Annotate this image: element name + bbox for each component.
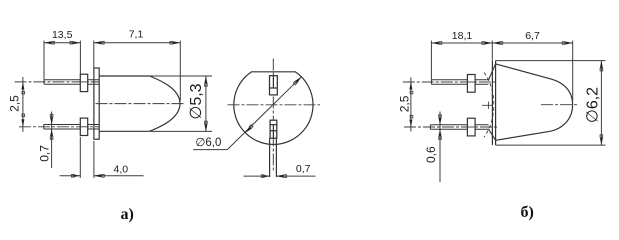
arrow 2,5b top: [409, 82, 412, 90]
svg-text:18,1: 18,1: [452, 30, 473, 42]
dimension 7,1 line: [94, 42, 181, 44]
LED b: internal dashed arc: [484, 73, 494, 138]
LED a: top lead: [44, 80, 99, 84]
LED a: top lead crimp tab: [80, 74, 87, 91]
svg-text:0,7: 0,7: [38, 145, 52, 162]
LED a: top lead centerline overlay: [79, 81, 89, 83]
dimension 18,1 line: [431, 42, 492, 44]
LED b: internal funnel top: [489, 64, 496, 80]
svg-text:6,7: 6,7: [525, 30, 540, 42]
svg-text:13,5: 13,5: [52, 29, 73, 41]
dimension 4,0 lines: [60, 175, 144, 177]
dimension 7,1 extension lines: [94, 41, 181, 101]
arrow 18,1 right: [485, 42, 492, 45]
LED front view: lead below: [270, 138, 277, 177]
arrow 0,7mid left: [263, 175, 270, 178]
svg-text:2,5: 2,5: [397, 95, 411, 112]
LED b: body axis centerline: [541, 104, 578, 106]
arrow 2,5a bottom: [21, 119, 24, 127]
arrow D6,0 upper: [295, 77, 301, 83]
arrow 2,5b bottom: [409, 120, 412, 128]
dimension D5,3 extension lines: [150, 76, 212, 131]
svg-text:∅6,2: ∅6,2: [584, 87, 601, 123]
LED b: top lead: [431, 80, 488, 85]
arrow D5,3 bottom: [204, 124, 207, 131]
arrow 0,7mid right: [276, 175, 283, 178]
LED b: body cone and dome bottom: [496, 105, 573, 141]
arrow 7,1 right: [173, 41, 180, 44]
arrow 0,7a up: [50, 129, 53, 136]
dimension D6,0 underline: [193, 149, 227, 151]
LED a: body with dome: [99, 76, 180, 131]
svg-text:б): б): [521, 204, 534, 221]
dimension 13,5 extension lines: [44, 41, 80, 80]
dimension D6,0 diagonal: [227, 77, 301, 150]
arrow 18,1 left: [432, 42, 439, 45]
arrow 13,5 right: [73, 41, 80, 44]
arrow D6,0 lower: [245, 127, 251, 133]
LED b: top lead centerline overlay: [466, 81, 477, 83]
dimension 0,7 lines (front view): [244, 175, 316, 177]
arrow D6,2 top: [600, 61, 603, 68]
arrow 0,6 down: [439, 118, 442, 125]
arrows group: [21, 41, 603, 177]
LED b: bottom lead crimp tab: [467, 118, 475, 136]
LED b: bottom lead: [430, 125, 488, 130]
dimension 6,7 right extension: [572, 41, 574, 101]
arrow D6,2 bottom: [600, 138, 603, 145]
LED b: top lead centerline: [403, 81, 497, 83]
LED a: top lead centerline: [15, 81, 100, 83]
LED a: bottom lead: [44, 125, 100, 130]
arrow 13,5 left: [44, 41, 51, 44]
LED b: base rim: [492, 61, 495, 146]
arrow 4,0 right: [94, 174, 101, 177]
dimension 2,5 line (b): [410, 78, 412, 132]
dimension 6,7 line: [492, 42, 572, 44]
LED b: body cone and dome top: [496, 64, 573, 105]
dimension 13,5 line: [44, 42, 80, 44]
svg-text:2,5: 2,5: [7, 95, 21, 112]
svg-text:∅6,0: ∅6,0: [195, 137, 221, 149]
LED front view: horizontal centerline: [228, 104, 321, 106]
svg-text:а): а): [121, 206, 134, 223]
LED b: polarity plus mark: [482, 102, 492, 109]
LED b: bottom lead centerline: [404, 126, 497, 128]
arrow 0,6 up: [439, 129, 442, 136]
arrow 6,7 right: [566, 42, 573, 45]
dimension 0,6 line (b): [439, 112, 441, 183]
LED a: bottom lead crimp tab: [80, 118, 87, 135]
LED front view: top electrode: [270, 76, 278, 95]
dimension 0,7 line (a): [51, 112, 53, 169]
LED a: bottom lead centerline: [19, 126, 100, 128]
LED b: bottom lead centerline overlay: [466, 126, 477, 128]
dimension texts: [7, 28, 601, 175]
LED b: internal funnel bottom: [489, 129, 496, 140]
dimension D6,2 extension lines: [496, 61, 606, 146]
LED a: flange: [94, 68, 99, 139]
dimension 18,1 / 6,7 shared extension: [491, 41, 493, 61]
LED front view: bottom electrode: [270, 120, 277, 138]
arrow 2,5a top: [21, 82, 24, 90]
LED b: top lead crimp tab: [467, 75, 475, 93]
dimension D6,2 line: [600, 61, 602, 146]
LED front view: vertical centerline: [272, 59, 274, 173]
arrow 7,1 left: [94, 41, 101, 44]
arrow 0,7a down: [50, 118, 53, 125]
svg-text:4,0: 4,0: [113, 163, 128, 175]
arrow D5,3 top: [204, 76, 207, 83]
svg-text:7,1: 7,1: [129, 28, 144, 40]
LED front view: circle with flat top: [234, 72, 313, 145]
arrow 6,7 left: [493, 42, 500, 45]
svg-text:∅5,3: ∅5,3: [188, 83, 205, 119]
dimension 18,1 extension line: [430, 41, 432, 80]
svg-text:0,6: 0,6: [424, 146, 438, 163]
dimension 2,5 line (a): [22, 77, 24, 132]
svg-text:0,7: 0,7: [296, 163, 311, 175]
dimension 4,0 extension lines: [80, 137, 94, 178]
LED a: bottom lead centerline overlay: [79, 126, 89, 128]
LED a: body axis centerline: [96, 103, 186, 105]
dimension D5,3 line: [205, 76, 207, 131]
arrow 4,0 left: [73, 174, 80, 177]
